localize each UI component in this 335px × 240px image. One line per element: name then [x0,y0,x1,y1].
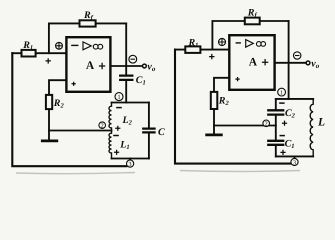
svg-text:1: 1 [117,94,120,101]
svg-text:3: 3 [129,161,132,168]
svg-text:A: A [249,57,258,69]
svg-text:2: 2 [101,123,104,130]
svg-text:A: A [86,60,95,72]
svg-text:3: 3 [293,159,296,166]
svg-text:2: 2 [265,121,268,128]
svg-text:1: 1 [280,89,283,96]
svg-text:C: C [158,127,165,138]
svg-text:L: L [317,117,325,129]
